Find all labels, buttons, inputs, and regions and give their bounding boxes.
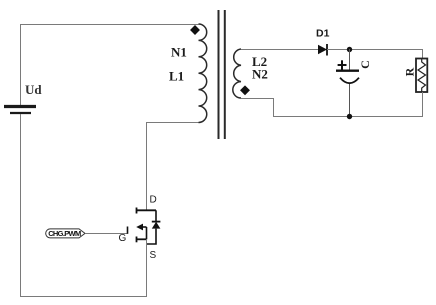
capacitor C: [336, 49, 359, 117]
wire left rail upper (battery top lead): [20, 24, 22, 105]
junction node bottom of capacitor: [347, 114, 352, 119]
wire primary bottom lead: [146, 122, 199, 124]
wire diode cathode to top-right corner: [327, 49, 423, 51]
svg-text:D1: D1: [316, 28, 330, 40]
junction node top of capacitor: [347, 47, 352, 52]
svg-text:R: R: [403, 67, 417, 76]
transformer secondary winding L2/N2: [233, 49, 241, 98]
wire left rail lower (battery bottom lead): [20, 114, 22, 297]
svg-text:G: G: [119, 233, 127, 244]
wire secondary top lead to diode: [241, 49, 318, 51]
wire drain lead: [146, 122, 148, 210]
svg-text:N2: N2: [252, 67, 268, 82]
drain contact: [137, 209, 157, 211]
body diode branch: [147, 210, 161, 244]
svg-text:S: S: [150, 250, 157, 261]
channel bar bottom: [136, 237, 138, 243]
wire source lead: [146, 239, 148, 297]
gate bar: [127, 227, 129, 234]
CHG.PWM input flag: [46, 229, 85, 238]
svg-text:CHG.PWM: CHG.PWM: [48, 229, 81, 238]
body arrow: [136, 224, 146, 240]
svg-text:C: C: [358, 60, 372, 69]
capacitor plus sign: [338, 60, 347, 69]
svg-text:L1: L1: [169, 69, 184, 84]
channel bar top: [136, 208, 138, 214]
wire secondary bottom rail: [241, 99, 423, 117]
polarity dot (diamond) primary: [190, 25, 200, 35]
diode D1: [318, 44, 327, 56]
wire bottom rail: [20, 296, 147, 298]
wire gate lead: [85, 233, 128, 235]
svg-text:D: D: [150, 195, 157, 206]
wire top rail from battery to primary: [20, 24, 199, 26]
battery Ud: [4, 107, 36, 114]
wire right rail top: [422, 49, 424, 59]
resistor R: [416, 59, 427, 93]
wire right rail bottom: [422, 92, 424, 117]
transformer core: [219, 10, 225, 139]
transformer primary winding L1/N1: [199, 24, 207, 123]
polarity dot (diamond) secondary: [240, 85, 250, 95]
svg-text:N1: N1: [171, 45, 187, 60]
source contact: [137, 238, 147, 240]
svg-text:Ud: Ud: [25, 82, 42, 97]
